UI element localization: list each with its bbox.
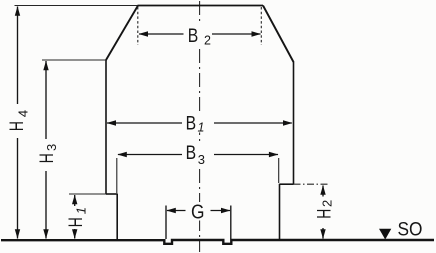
dimension line H4 [17,7,19,239]
dimension line B1 [107,122,292,124]
svg-text:2: 2 [320,200,335,207]
profile left wall [105,60,107,195]
arrow G right [221,208,231,213]
arrow H3 top [43,61,48,71]
SO label [398,218,423,240]
svg-text:B: B [188,25,199,47]
arrow H1 bottom [72,229,77,239]
profile left slope [106,6,138,61]
svg-text:H: H [7,121,28,131]
extension line: B3 left [116,158,118,193]
arrow B3 left [117,152,127,157]
profile right lower wall [279,184,281,240]
extension line: G left [165,206,167,240]
arrow H2 top [320,185,325,195]
label H1 (rotated) [66,207,89,227]
profile right slope [263,6,294,63]
extension line: H1 step [69,193,106,195]
SO ground marker triangle [379,229,391,240]
ground line with two foot notches [1,240,434,244]
extension line: B2 left [137,7,139,45]
svg-text:SO: SO [398,218,423,240]
profile right step [280,183,294,185]
label gap masks [8,25,334,229]
profile left lower wall [116,194,118,240]
extension line: top edge to H4 [15,5,138,7]
svg-text:G: G [191,202,205,224]
arrow B2 right [252,31,262,36]
svg-text:H: H [66,217,87,227]
svg-text:2: 2 [204,34,211,48]
svg-text:H: H [37,153,58,163]
arrow H3 bottom [43,229,48,239]
label G [191,202,205,224]
profile left step [106,193,117,195]
arrow B1 right [283,120,293,125]
dimension line B2 [139,33,261,35]
arrow G left [166,208,176,213]
dimension line B3 [118,154,278,156]
extension line: G right [230,206,232,240]
svg-text:H: H [314,209,335,219]
extension line: H3 shoulder [42,59,106,61]
label B3 [186,142,205,167]
arrow B1 left [107,120,117,125]
svg-text:B: B [186,142,197,164]
svg-text:4: 4 [15,110,30,117]
svg-text:B: B [186,113,197,135]
svg-text:3: 3 [44,144,59,151]
extension line: H2 step [294,183,330,185]
centerline (vertical dash-dot axis) [199,1,201,252]
dimension line G [167,210,230,212]
svg-text:1: 1 [198,121,205,135]
label B2 [188,25,211,48]
extension line: B2 right [260,7,262,45]
dimension line H1 [74,195,76,239]
dimension line H2 [322,186,324,239]
arrow H4 bottom [15,229,20,239]
profile top edge [138,5,264,7]
arrow H4 top [15,6,20,16]
arrow H2 bottom [320,229,325,239]
arrow H1 top [72,195,77,205]
label B1 [186,113,205,135]
svg-text:1: 1 [74,207,89,214]
dimension line H3 [45,61,47,239]
label H3 (rotated) [37,144,59,163]
profile right wall [293,62,295,185]
arrow B3 right [269,152,279,157]
arrow B2 left [139,31,149,36]
svg-text:3: 3 [198,152,205,167]
extension line: B3 right [278,158,280,183]
label H4 (rotated) [7,110,30,131]
label H2 (rotated) [314,200,335,219]
